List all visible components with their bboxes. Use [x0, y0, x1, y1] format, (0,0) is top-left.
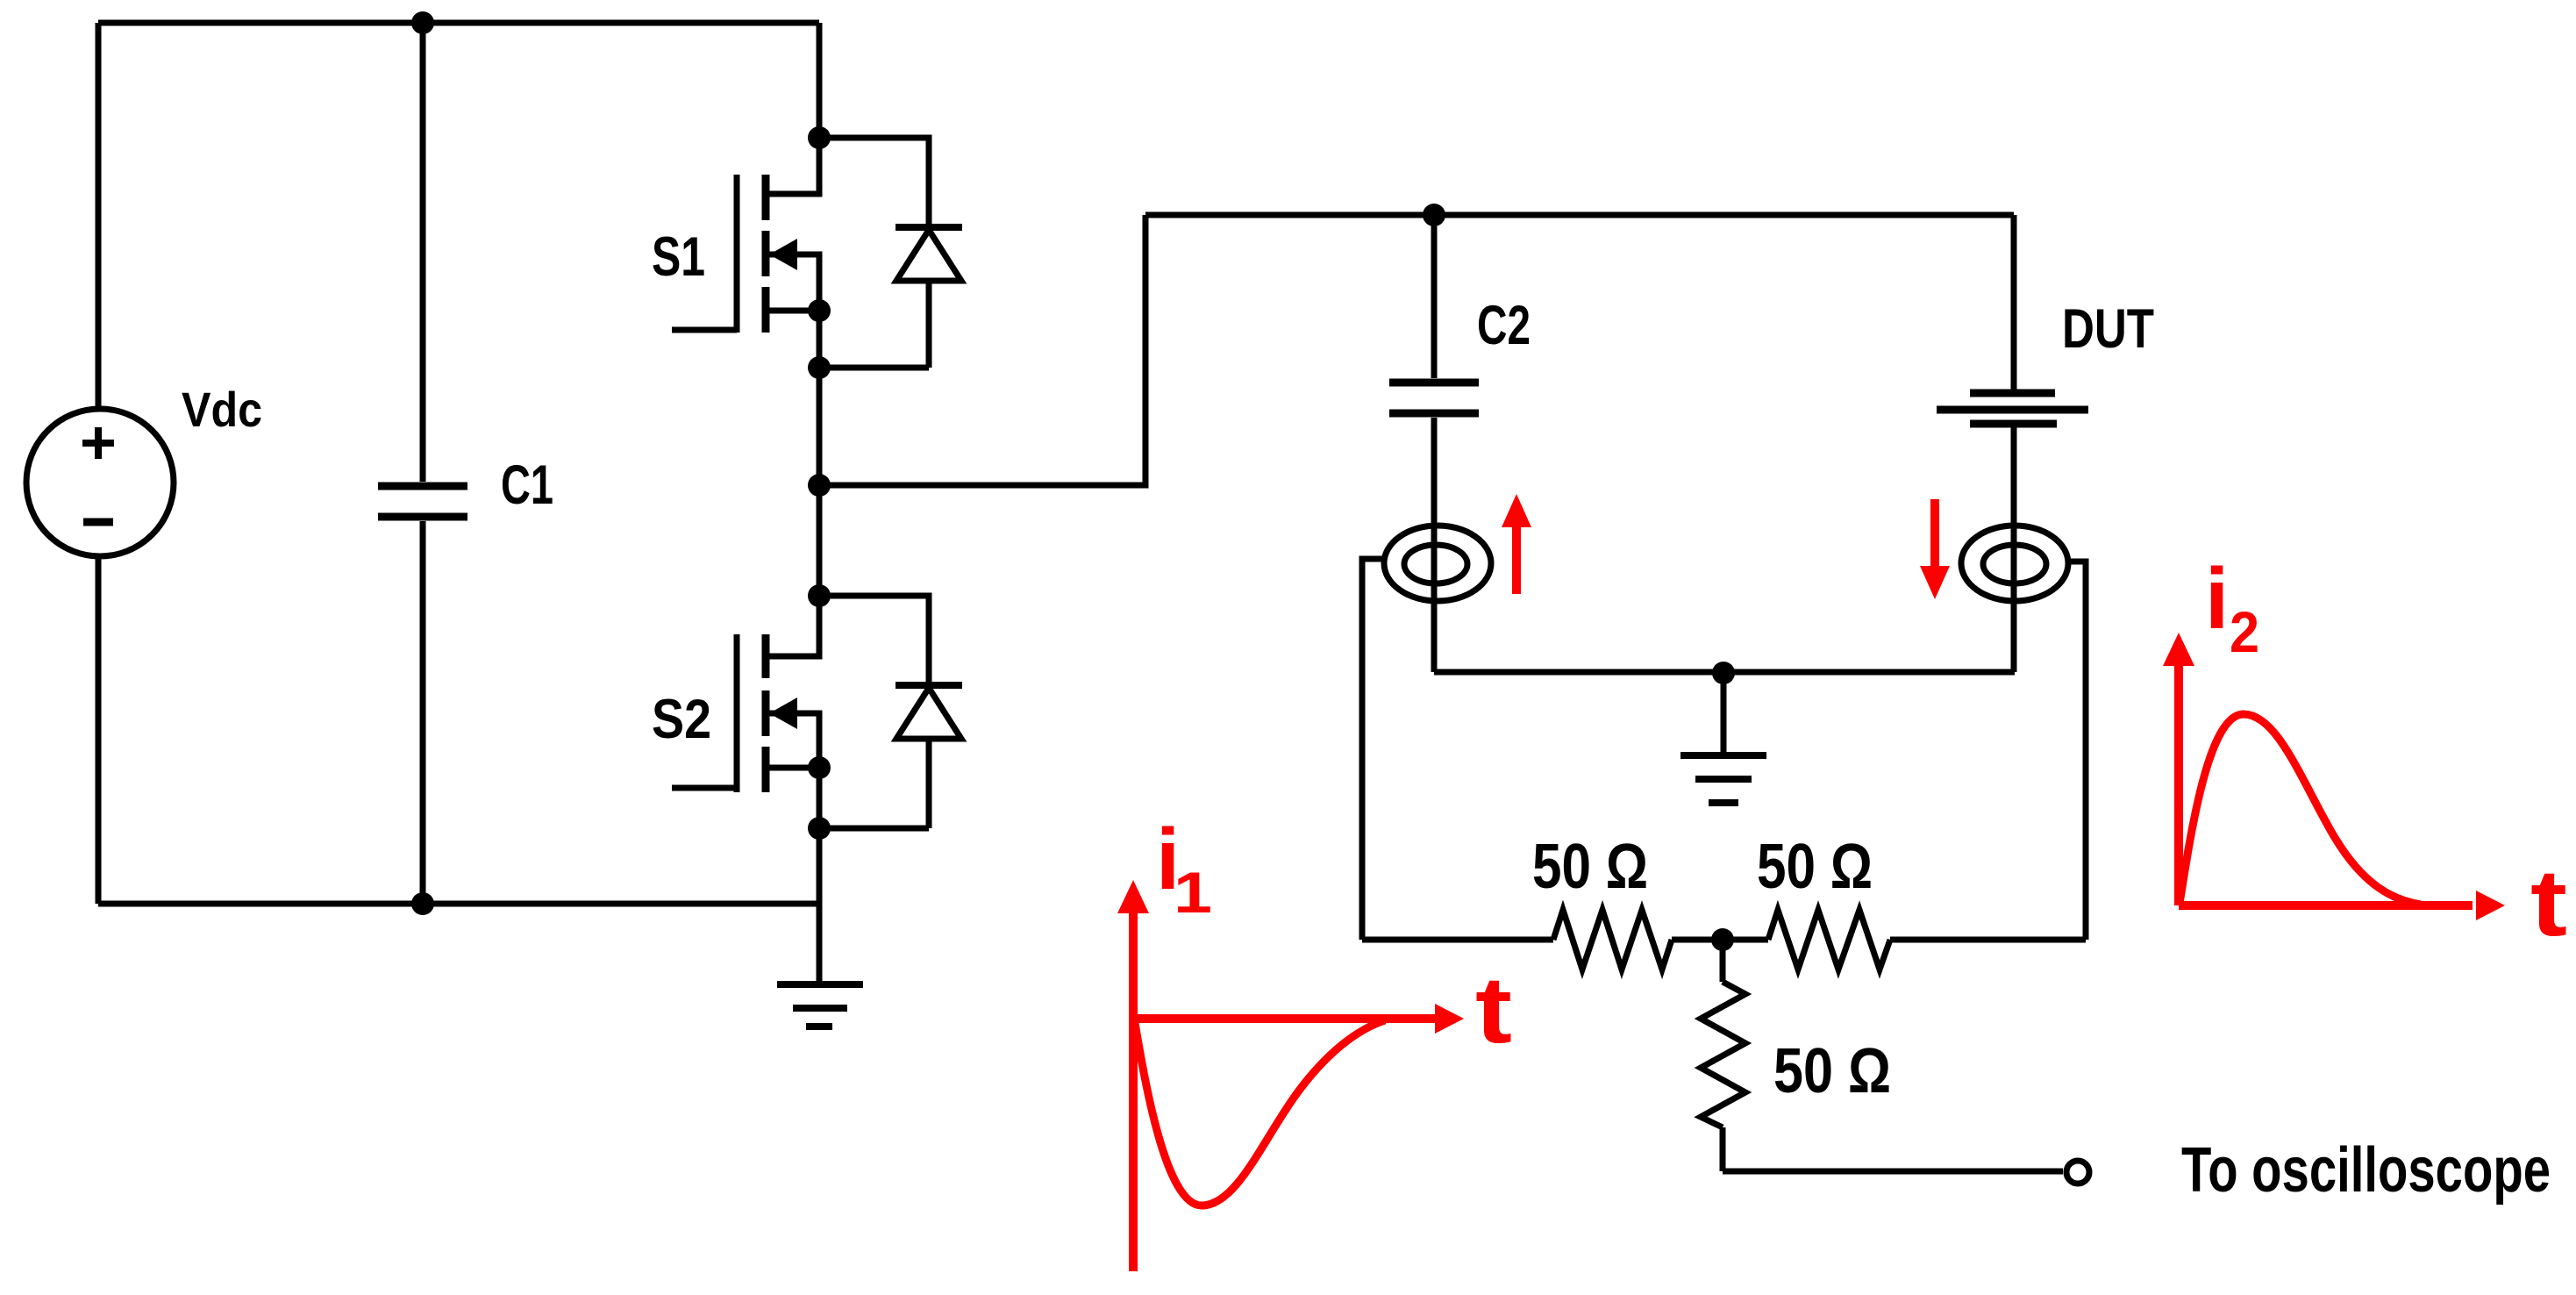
i1 waveform curve [1134, 1018, 1385, 1206]
svg-text:2: 2 [2230, 599, 2259, 664]
DUT device [1937, 215, 2088, 672]
resistor R3 50ohm vertical [1701, 940, 1745, 1171]
wire left branch top [96, 23, 102, 410]
node midpoint [808, 474, 831, 497]
wire left branch bottom [96, 555, 102, 904]
wire S2 source rail to ground [817, 713, 823, 982]
node S1 source lead [808, 299, 831, 322]
node S1 drain [808, 126, 831, 149]
svg-text:C1: C1 [501, 454, 553, 516]
resistor R1 50ohm [1553, 910, 1672, 969]
svg-text:1: 1 [1174, 860, 1212, 925]
svg-text:i: i [2205, 550, 2229, 647]
wire S1 source rail down to S2 [817, 254, 823, 656]
svg-text:To oscilloscope: To oscilloscope [2181, 1135, 2551, 1206]
wire CT1 secondary [1362, 559, 1385, 940]
svg-text:t: t [1475, 956, 1512, 1062]
arrowhead i1 x-axis [1435, 1004, 1464, 1034]
svg-text:50 Ω: 50 Ω [1532, 832, 1648, 902]
svg-text:C2: C2 [1477, 295, 1531, 356]
source Vdc [26, 409, 174, 556]
svg-text:Vdc: Vdc [182, 382, 262, 437]
wire between resistors [1672, 937, 1768, 943]
i1 plot y-axis [1129, 912, 1138, 1271]
arrowhead i1 up [1502, 494, 1531, 527]
wire S1 drain rail [767, 23, 819, 194]
diode D2 [819, 596, 962, 828]
wire resistor row right [1890, 937, 2086, 943]
node resistor junction [1711, 928, 1734, 951]
node bottom bus / C1 [411, 892, 434, 915]
svg-text:S2: S2 [652, 689, 711, 750]
svg-text:t: t [2530, 849, 2567, 955]
wire bottom bus [98, 901, 819, 907]
resistor R2 50ohm [1768, 910, 1890, 969]
arrowhead i2 down [1920, 566, 1950, 599]
wire resistor row left [1362, 937, 1553, 943]
node S2 drain [808, 584, 831, 607]
wire to oscilloscope [1723, 1169, 2063, 1175]
capacitor C2 [1389, 215, 1479, 672]
svg-text:50 Ω: 50 Ω [1773, 1036, 1891, 1106]
terminal oscilloscope [2066, 1161, 2089, 1184]
wire C2 top bus [1145, 212, 2014, 218]
arrowhead i2 y-axis [2163, 633, 2194, 666]
transistor S2 [672, 634, 819, 792]
i2 plot y-axis [2174, 665, 2183, 905]
arrowhead i2 x-axis [2476, 891, 2505, 920]
svg-text:50 Ω: 50 Ω [1757, 832, 1873, 902]
current arrow i1 up at CT1 [1512, 526, 1521, 594]
wire S2 drain lead [767, 596, 819, 656]
transistor S1 [672, 175, 819, 333]
current transformer CT2 [1961, 526, 2068, 601]
capacitor C1 [378, 23, 467, 904]
ground under S2 [777, 984, 863, 1027]
wire top bus [98, 20, 819, 26]
i2 plot x-axis [2179, 901, 2473, 910]
node top bus / C1 [411, 11, 434, 34]
ground mid [1680, 673, 1766, 803]
wire midpoint to load loop [819, 215, 1145, 485]
node S2 source / diode [808, 817, 831, 840]
i2 waveform curve [2180, 714, 2421, 905]
current transformer CT1 [1384, 526, 1491, 601]
svg-text:S1: S1 [652, 226, 705, 288]
i1 plot x-axis [1133, 1014, 1436, 1023]
wire bottom of load loop [1434, 669, 2015, 676]
svg-text:DUT: DUT [2062, 298, 2154, 360]
wire CT2 secondary [2068, 562, 2086, 940]
node ground mid [1712, 662, 1735, 684]
diode D1 [819, 138, 962, 368]
node C2 top [1423, 204, 1445, 226]
arrowhead i1 y-axis [1117, 880, 1149, 913]
current arrow i2 down at CT2 [1930, 499, 1939, 567]
node S1 source / diode [808, 356, 831, 379]
node S2 source lead [808, 756, 831, 779]
